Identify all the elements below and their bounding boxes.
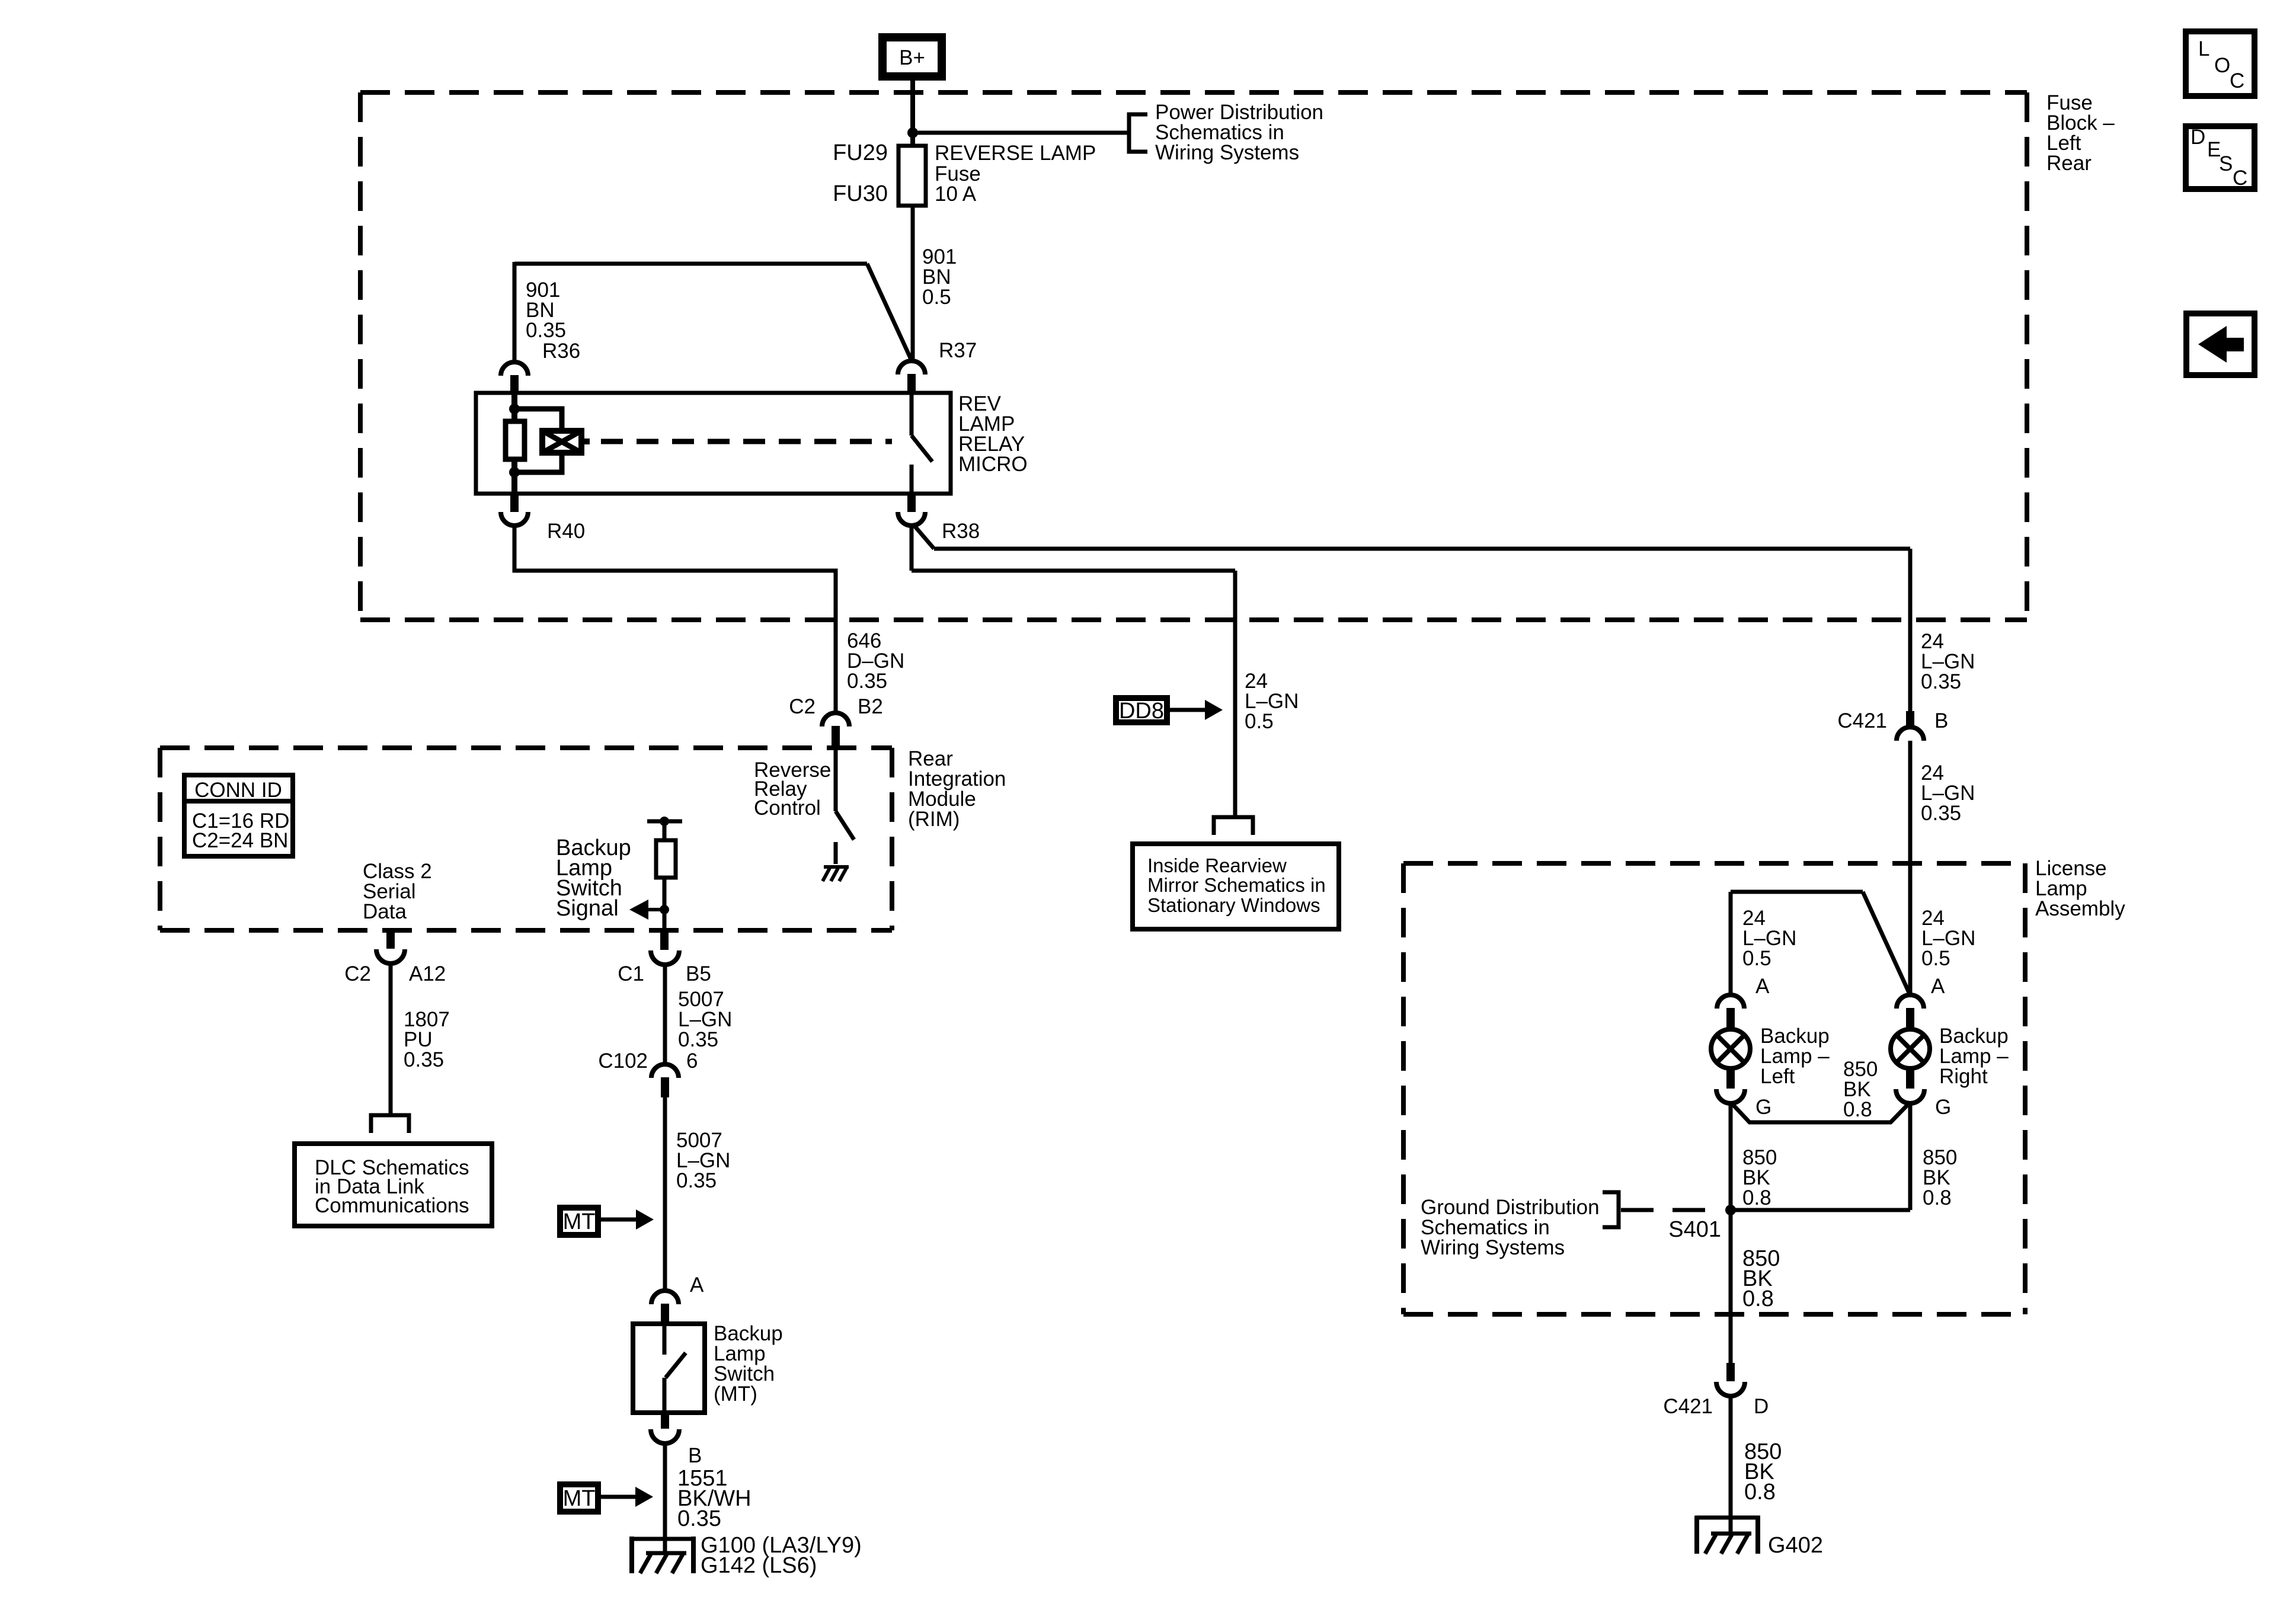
svg-text:A12: A12 (409, 962, 446, 985)
svg-text:FU29: FU29 (833, 140, 888, 165)
connector C421 D (1663, 1363, 1769, 1418)
svg-text:B: B (688, 1444, 702, 1467)
wire 850 BK 0.8 to G402 (1729, 1395, 1733, 1534)
label Backup Lamp Switch Signal (556, 836, 631, 921)
label Backup Lamp - Right (1939, 1025, 2009, 1088)
connector R38 (898, 494, 980, 543)
svg-text:C421: C421 (1663, 1395, 1713, 1418)
license lamp assembly dashed boundary (1403, 863, 2025, 1314)
svg-text:6: 6 (686, 1049, 698, 1073)
terminal bracket to mirror schematics (1214, 817, 1253, 835)
svg-text:Signal: Signal (556, 896, 619, 921)
relay coil loop wire (514, 409, 562, 472)
svg-text:B5: B5 (686, 962, 711, 985)
svg-text:0.35: 0.35 (676, 1169, 717, 1192)
LOC box (2186, 31, 2255, 96)
label G100 (LA3/LY9) G142 (LS6) (701, 1533, 862, 1578)
connector C421 B (1837, 709, 1948, 741)
label REV LAMP RELAY MICRO (958, 392, 1028, 476)
backup lamp switch (MT) box (633, 1324, 705, 1413)
label 850 BK 0.8 right (1923, 1146, 1957, 1209)
fuse FU29/FU30 (898, 146, 926, 206)
node relay coil bottom (509, 467, 520, 478)
svg-text:D: D (2191, 126, 2205, 149)
label 24 L-GN 0.5 mirror wire (1245, 670, 1299, 733)
back arrow box (2186, 313, 2255, 375)
svg-text:0.8: 0.8 (1843, 1098, 1872, 1121)
label Power Distribution Schematics in Wiring Systems (1155, 101, 1323, 164)
relay coil crossed-box symbol (542, 431, 590, 453)
svg-text:C: C (2233, 167, 2247, 190)
svg-text:Rear: Rear (2046, 152, 2092, 175)
wire 1807 PU 0.35 (389, 963, 393, 1114)
svg-text:R37: R37 (939, 339, 977, 362)
label 850 BK 0.8 center (1843, 1058, 1878, 1121)
wire 5007 L-GN 0.35 lower (663, 1097, 667, 1291)
splice S401 (1668, 1205, 1736, 1242)
MT reference lower (560, 1484, 653, 1512)
label 1551 BK/WH 0.35 (677, 1466, 752, 1531)
wire 5007 L-GN 0.35 upper (663, 964, 667, 1065)
CONN ID table (184, 775, 293, 856)
connector C2/B2 (789, 695, 883, 748)
wire 24 L-GN 0.35 below C421 B (1908, 741, 1913, 996)
svg-text:0.35: 0.35 (1921, 802, 1961, 825)
reverse relay control switch (836, 748, 854, 864)
label Backup Lamp Switch (MT) (714, 1322, 783, 1406)
connector A left lamp (1717, 975, 1770, 1029)
label Class 2 Serial Data (363, 860, 432, 923)
ground jumper between lamps 850 BK 0.8 (1731, 1102, 1910, 1122)
wire B+ to fuse (910, 77, 915, 148)
svg-text:G402: G402 (1768, 1533, 1823, 1558)
power terminal B+ (882, 37, 942, 76)
label 646 D-GN 0.35 (847, 629, 904, 693)
connector A right lamp (1897, 975, 1945, 1029)
svg-text:R40: R40 (547, 520, 585, 543)
arrow backup lamp switch signal (629, 900, 664, 920)
svg-text:0.35: 0.35 (404, 1048, 444, 1071)
svg-text:A: A (1931, 975, 1945, 998)
svg-text:A: A (690, 1273, 704, 1297)
svg-text:FU30: FU30 (833, 181, 888, 206)
svg-text:B+: B+ (899, 46, 925, 69)
svg-text:(RIM): (RIM) (908, 808, 960, 831)
svg-text:B2: B2 (858, 695, 883, 718)
svg-text:0.8: 0.8 (1742, 1286, 1774, 1311)
reference bracket Power Distribution (1129, 114, 1147, 152)
svg-text:0.8: 0.8 (1744, 1480, 1776, 1505)
label REVERSE LAMP Fuse 10 A (935, 142, 1096, 206)
node junction below B+ (907, 127, 918, 138)
svg-text:Left: Left (1760, 1065, 1795, 1088)
label 901 BN 0.5 (922, 245, 957, 309)
label 901 BN 0.35 (526, 279, 566, 342)
connector C1/B5 (618, 930, 711, 985)
node relay coil top (509, 404, 520, 414)
wire R38 to C421 B (24 L-GN 0.35) (913, 524, 1910, 712)
svg-text:CONN ID: CONN ID (194, 779, 282, 802)
backup lamp switch contacts (664, 1324, 686, 1413)
svg-text:REVERSE LAMP: REVERSE LAMP (935, 142, 1096, 165)
label 850 BK 0.8 left (1742, 1146, 1777, 1209)
svg-text:Right: Right (1939, 1065, 1988, 1088)
svg-text:B: B (1934, 709, 1948, 732)
svg-text:0.35: 0.35 (1921, 670, 1961, 693)
svg-text:MT: MT (563, 1486, 596, 1511)
svg-text:C2: C2 (789, 695, 816, 718)
svg-text:MT: MT (563, 1209, 596, 1234)
wire 850 BK 0.8 S401 to C421 D (1729, 1210, 1733, 1363)
DD8 reference (1116, 698, 1223, 724)
label 24 L-GN 0.35 below C421 B (1921, 761, 1975, 825)
svg-text:Inside Rearview: Inside Rearview (1147, 854, 1287, 876)
svg-text:Data: Data (363, 900, 407, 923)
connector C2/A12 (344, 930, 446, 985)
wire 646 D-GN 0.35 from R40 to C2/B2 (514, 524, 836, 713)
svg-text:0.35: 0.35 (677, 1506, 721, 1531)
connector R36 (501, 340, 580, 393)
svg-text:R36: R36 (542, 340, 580, 363)
relay switch (912, 393, 932, 494)
label Backup Lamp - Left (1760, 1025, 1830, 1088)
svg-text:0.35: 0.35 (847, 670, 887, 693)
svg-text:0.5: 0.5 (1245, 710, 1274, 733)
svg-text:Assembly: Assembly (2035, 897, 2125, 920)
relay coil resistor (506, 421, 525, 459)
connector R37 (898, 339, 977, 393)
label License Lamp Assembly (2035, 857, 2125, 920)
backup lamp switch signal pull-up (647, 817, 682, 930)
svg-text:10 A: 10 A (935, 183, 977, 206)
MT reference upper (560, 1208, 654, 1235)
label 24 L-GN 0.35 upper right (1921, 630, 1975, 693)
svg-text:Mirror Schematics in: Mirror Schematics in (1147, 874, 1326, 896)
box Inside Rearview Mirror Schematics in Stationary Windows (1133, 844, 1339, 929)
svg-text:Wiring Systems: Wiring Systems (1155, 141, 1299, 164)
svg-text:MICRO: MICRO (958, 453, 1028, 476)
svg-text:Stationary Windows: Stationary Windows (1147, 894, 1320, 916)
rear integration module dashed boundary (160, 748, 892, 930)
svg-text:0.35: 0.35 (678, 1028, 718, 1051)
ground symbol inside RIM (823, 867, 849, 881)
label 24 L-GN 0.5 left lamp (1742, 907, 1796, 970)
ground G100/G142 (630, 1537, 695, 1573)
svg-text:S: S (2219, 152, 2233, 175)
label 850 BK 0.8 above G402 (1744, 1439, 1782, 1505)
svg-text:0.5: 0.5 (1921, 947, 1950, 970)
svg-text:Wiring Systems: Wiring Systems (1421, 1236, 1565, 1259)
label Fuse Block - Left Rear (2046, 91, 2115, 175)
svg-text:C421: C421 (1837, 709, 1887, 732)
wire 1551 BK/WH 0.35 (663, 1443, 667, 1539)
backup lamp right (1891, 1029, 1951, 1119)
reference bracket Ground Distribution (1603, 1192, 1619, 1227)
relay coil vertical wire (511, 393, 517, 494)
connector R40 (501, 494, 585, 543)
svg-text:0.5: 0.5 (1742, 947, 1771, 970)
svg-text:G142 (LS6): G142 (LS6) (701, 1553, 817, 1578)
wire 850 BK 0.8 left lamp to S401 (1729, 1102, 1733, 1210)
svg-text:C2: C2 (344, 962, 371, 985)
svg-text:O: O (2214, 54, 2230, 77)
svg-text:0.5: 0.5 (922, 286, 951, 309)
label 1807 PU 0.35 (404, 1008, 450, 1071)
svg-text:S401: S401 (1668, 1217, 1721, 1242)
wire 901 BN 0.5 fuse to R37 (911, 206, 915, 361)
wire 901 BN 0.35 branch to R36 (514, 262, 911, 363)
svg-text:C1: C1 (618, 962, 644, 985)
relay REV LAMP RELAY MICRO box (476, 393, 951, 494)
label Rear Integration Module (RIM) (908, 747, 1006, 831)
DESC box (2186, 126, 2255, 190)
svg-text:0.35: 0.35 (526, 319, 566, 342)
label Ground Distribution Schematics in Wiring Systems (1421, 1196, 1600, 1259)
svg-text:(MT): (MT) (714, 1382, 757, 1406)
connector B backup lamp switch (651, 1413, 702, 1467)
svg-text:Control: Control (754, 796, 821, 820)
terminal bracket to DLC (371, 1115, 409, 1133)
label Reverse Relay Control (754, 758, 831, 820)
wire junction to power distribution bracket (913, 131, 1129, 135)
label 850 BK 0.8 below S401 (1742, 1246, 1780, 1311)
label 5007 L-GN 0.35 lower (676, 1129, 730, 1192)
wire R38 lower branch to mirror reference (912, 524, 1235, 817)
connector A backup lamp switch (651, 1273, 704, 1324)
wire 850 BK 0.8 right lamp to S401 (1731, 1102, 1910, 1210)
backup lamp left (1711, 1029, 1771, 1119)
svg-text:L: L (2198, 37, 2209, 60)
svg-text:D: D (1754, 1395, 1769, 1418)
svg-text:G: G (1935, 1096, 1951, 1119)
svg-text:DD8: DD8 (1119, 699, 1164, 724)
connector C102 pin 6 (598, 1049, 698, 1097)
svg-text:A: A (1755, 975, 1770, 998)
ground G402 (1695, 1516, 1760, 1554)
label 5007 L-GN 0.35 upper (678, 988, 732, 1051)
fuse block - left rear dashed boundary (360, 92, 2027, 620)
svg-text:0.8: 0.8 (1742, 1186, 1771, 1209)
relay internal dashed link (601, 439, 892, 444)
svg-text:R38: R38 (942, 520, 980, 543)
svg-text:C102: C102 (598, 1049, 648, 1073)
label 24 L-GN 0.5 right lamp (1921, 907, 1975, 970)
svg-text:C: C (2230, 69, 2244, 92)
svg-text:G: G (1755, 1096, 1771, 1119)
svg-text:Communications: Communications (315, 1194, 469, 1217)
svg-text:0.8: 0.8 (1923, 1186, 1952, 1209)
svg-text:C2=24 BN: C2=24 BN (192, 829, 288, 852)
dashed link bracket to S401 (1621, 1208, 1723, 1212)
wire 24 L-GN 0.5 feed to left lamp (1731, 892, 1909, 996)
box DLC Schematics in Data Link Communications (295, 1144, 492, 1226)
